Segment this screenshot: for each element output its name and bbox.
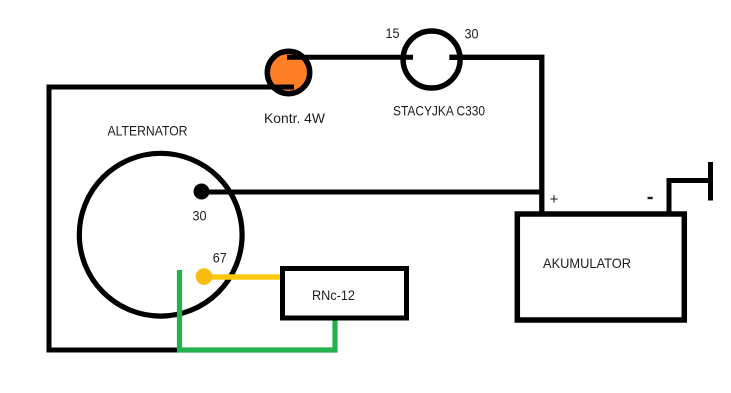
wire: lamp feed loop (top horizontal, left vertical, bottom horizontal) (49, 87, 294, 350)
lamp Kontr. 4W (orange indicator) (267, 51, 309, 93)
svg-text:30: 30 (193, 208, 207, 224)
svg-text:RNc-12: RNc-12 (312, 287, 355, 303)
node: alternator terminal 67 (gold dot) (196, 268, 213, 285)
wire: battery - terminal to chassis ground (669, 181, 708, 217)
regulator RNc-12 box (283, 269, 407, 319)
svg-text:+: + (550, 191, 559, 208)
wire: green field wire (alternator to RNc-12 ground side) (180, 270, 336, 350)
svg-text:30: 30 (465, 26, 479, 42)
wire: lamp to switch terminal 15 (287, 55, 413, 60)
battery AKUMULATOR box (517, 214, 684, 320)
alternator circle (79, 153, 242, 316)
svg-text:STACYJKA C330: STACYJKA C330 (393, 103, 485, 119)
ground bar (chassis) (708, 162, 713, 201)
svg-text:67: 67 (213, 250, 227, 266)
svg-text:15: 15 (386, 25, 400, 41)
svg-text:AKUMULATOR: AKUMULATOR (543, 255, 631, 271)
wire: alternator terminal 30 to battery wire (201, 190, 541, 195)
svg-text:ALTERNATOR: ALTERNATOR (108, 123, 188, 139)
wire: yellow wire terminal 67 to RNc-12 (204, 274, 281, 280)
ignition switch STACYJKA C330 (circle) (403, 31, 460, 88)
wire: switch terminal 30 down to battery + (449, 57, 542, 214)
label - (battery negative) (648, 197, 653, 199)
svg-text:Kontr. 4W: Kontr. 4W (264, 110, 326, 126)
node: alternator terminal 30 (black dot) (194, 184, 210, 200)
